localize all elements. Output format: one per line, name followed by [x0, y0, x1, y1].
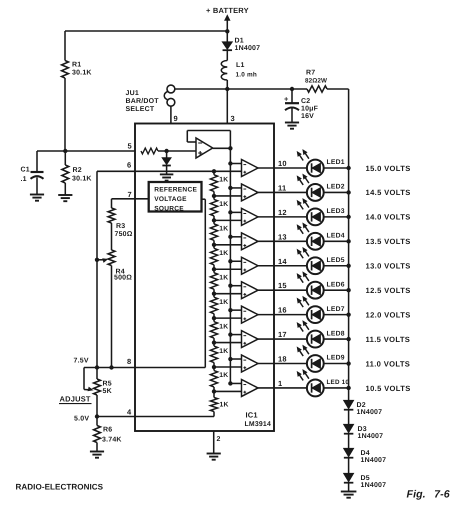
- svg-text:10: 10: [278, 159, 287, 168]
- node ladder tap 8: [212, 340, 216, 344]
- label pin 11: [278, 183, 286, 192]
- svg-text:12.0 VOLTS: 12.0 VOLTS: [366, 310, 411, 319]
- svg-text:17: 17: [278, 330, 287, 339]
- diode D1: [223, 38, 261, 53]
- node rail row 2: [346, 190, 350, 194]
- node rail row 7: [346, 312, 350, 316]
- resistor ladder 1K #3: [210, 220, 228, 244]
- node rail row 10: [346, 386, 350, 390]
- label pin 17: [278, 330, 287, 339]
- svg-text:1N4007: 1N4007: [357, 409, 383, 416]
- svg-text:LED6: LED6: [327, 281, 345, 288]
- svg-text:1N4007: 1N4007: [235, 45, 261, 52]
- svg-text:9: 9: [174, 114, 178, 123]
- op-amp comparator 8: [230, 331, 258, 348]
- wire comparator 4 + input: [214, 244, 242, 246]
- ground internal: [160, 174, 173, 180]
- svg-text:R5: R5: [103, 381, 112, 388]
- wire pin3 rail: [226, 89, 228, 124]
- wire top rail: [175, 88, 349, 90]
- wire to op-amp +: [158, 150, 196, 152]
- node ladder tap 2: [212, 194, 216, 198]
- jumper JU1: [126, 85, 175, 113]
- wire comparator 5 output: [258, 265, 307, 267]
- ground pin2: [207, 454, 221, 460]
- label Fig. 7-6: [407, 489, 450, 501]
- resistor R2: [62, 151, 92, 195]
- op-amp comparator 1: [230, 160, 258, 177]
- svg-text:LED8: LED8: [327, 330, 345, 337]
- svg-text:12: 12: [278, 208, 287, 217]
- label pin 12: [278, 208, 287, 217]
- svg-text:10.5 VOLTS: 10.5 VOLTS: [366, 384, 411, 393]
- capacitor C2: [284, 89, 319, 122]
- svg-text:13: 13: [278, 232, 287, 241]
- diode internal zener: [162, 151, 171, 174]
- svg-text:1N4007: 1N4007: [358, 433, 384, 440]
- node ladder tap 9: [212, 365, 216, 369]
- label ADJUST: [59, 395, 92, 404]
- wire LED rail: [348, 168, 350, 401]
- label pin 3: [231, 114, 235, 123]
- svg-text:1K: 1K: [219, 323, 228, 330]
- svg-text:1K: 1K: [219, 177, 228, 184]
- node comparator 8 feed: [228, 332, 232, 336]
- node buffer output: [228, 146, 232, 150]
- wire comparator 10 + input: [214, 390, 242, 392]
- op-amp comparator 5: [230, 257, 258, 274]
- svg-text:+: +: [284, 95, 289, 104]
- label LM3914: [245, 421, 271, 428]
- label pin 6: [127, 161, 131, 170]
- svg-text:LED7: LED7: [327, 306, 345, 313]
- node rail row 9: [346, 361, 350, 365]
- node 5.0V: [95, 414, 99, 418]
- svg-text:1K: 1K: [219, 201, 228, 208]
- svg-text:R2: R2: [73, 167, 82, 174]
- op-amp comparator 3: [230, 208, 258, 225]
- node comparator 6 feed: [228, 284, 232, 288]
- resistor ladder 1K #1: [210, 171, 228, 196]
- ground R2: [58, 195, 72, 201]
- resistor internal pin5: [141, 148, 158, 154]
- node comparator 2 feed: [228, 186, 232, 190]
- wire comparator 7 output: [258, 314, 307, 316]
- wire comparator 4 output: [258, 240, 307, 242]
- svg-text:D1: D1: [235, 38, 244, 45]
- node comparator 5 feed: [228, 259, 232, 263]
- label 11.0 VOLTS: [366, 359, 411, 368]
- node rail row 1: [346, 166, 350, 170]
- label 10.5 VOLTS: [366, 384, 411, 393]
- op-amp comparator 9: [230, 355, 258, 372]
- svg-text:13.0 VOLTS: 13.0 VOLTS: [366, 262, 411, 271]
- svg-text:R7: R7: [306, 70, 315, 77]
- resistor ladder 1K #7: [210, 318, 228, 342]
- label pin 18: [278, 355, 287, 364]
- label 12.0 VOLTS: [366, 310, 411, 319]
- svg-text:RADIO-ELECTRONICS: RADIO-ELECTRONICS: [16, 483, 104, 492]
- svg-text:ADJUST: ADJUST: [60, 395, 91, 404]
- svg-text:14: 14: [278, 257, 287, 266]
- resistor ladder 1K #8: [210, 343, 228, 367]
- resistor R1: [62, 61, 92, 79]
- label pin 10: [278, 159, 287, 168]
- LED LED5: [297, 248, 348, 275]
- node pin8 R4: [109, 365, 113, 369]
- diode D5: [344, 474, 386, 490]
- wire battery stem: [226, 17, 228, 42]
- wire 7.5V corner: [83, 368, 85, 390]
- wire D5 to ground: [348, 483, 350, 491]
- node pin8 left: [95, 365, 99, 369]
- svg-text:C1: C1: [21, 167, 30, 174]
- svg-text:LED5: LED5: [327, 257, 345, 264]
- wire pin7 corner: [111, 199, 113, 208]
- svg-text:10μF: 10μF: [301, 106, 319, 113]
- node comparator 1 feed: [228, 161, 232, 165]
- node comparator 10 feed: [228, 381, 232, 385]
- label pin 7: [128, 190, 132, 199]
- wire pin8 line: [84, 367, 205, 369]
- op-amp comparator 7: [230, 306, 258, 323]
- label 13.0 VOLTS: [366, 262, 411, 271]
- resistor R3: [108, 208, 133, 238]
- svg-text:LED 10: LED 10: [327, 379, 350, 386]
- svg-text:R6: R6: [103, 427, 112, 434]
- node ladder tap 5: [212, 267, 216, 271]
- svg-text:JU1: JU1: [126, 90, 139, 97]
- wire R1 to node: [64, 78, 66, 151]
- label pin 14: [278, 257, 287, 266]
- LED LED2: [297, 174, 348, 201]
- node battery top junction: [225, 29, 229, 33]
- svg-text:LED4: LED4: [327, 233, 345, 240]
- svg-text:LED9: LED9: [327, 355, 345, 362]
- svg-text:7: 7: [128, 190, 132, 199]
- op-amp comparator 4: [230, 233, 258, 250]
- svg-text:14.0 VOLTS: 14.0 VOLTS: [366, 213, 411, 222]
- svg-text:C2: C2: [301, 98, 310, 105]
- node internal pin5 tee: [164, 149, 168, 153]
- label 15.0 VOLTS: [366, 164, 411, 173]
- svg-text:750Ω: 750Ω: [115, 231, 133, 238]
- svg-text:1K: 1K: [219, 348, 228, 355]
- resistor ladder 1K #6: [210, 294, 228, 318]
- label 13.5 VOLTS: [366, 237, 411, 246]
- wire R5 down: [96, 395, 98, 417]
- label 14.5 VOLTS: [366, 188, 411, 197]
- label 14.0 VOLTS: [366, 213, 411, 222]
- wire comparator feed: [229, 148, 231, 383]
- label 11.5 VOLTS: [366, 335, 411, 344]
- wire R4 down: [111, 266, 113, 368]
- svg-text:1K: 1K: [220, 402, 229, 409]
- resistor ladder 1K #9: [210, 367, 228, 391]
- arrow battery up: [225, 15, 230, 20]
- svg-text:BAR/DOT: BAR/DOT: [126, 97, 160, 105]
- wire pin9 stem: [170, 106, 172, 123]
- node L1 junction: [225, 87, 229, 91]
- LED LED7: [297, 297, 348, 324]
- resistor ladder 1K #2: [210, 196, 228, 220]
- wire comparator 6 + input: [214, 293, 242, 295]
- svg-text:D2: D2: [357, 402, 366, 409]
- wire D1 to L1: [226, 51, 228, 61]
- svg-text:8: 8: [127, 357, 131, 366]
- LED LED9: [297, 345, 348, 371]
- node ladder tap 3: [212, 218, 216, 222]
- label RADIO-ELECTRONICS: [16, 483, 104, 492]
- wire comparator 8 + input: [214, 342, 242, 344]
- label pin 9: [174, 114, 178, 123]
- node R4 wiper: [95, 258, 99, 262]
- wire buffer feedback: [187, 131, 230, 149]
- op-amp comparator 10: [230, 379, 258, 396]
- node ladder tap 10: [212, 389, 216, 393]
- svg-text:1: 1: [278, 379, 282, 388]
- svg-text:REFERENCE: REFERENCE: [154, 187, 197, 194]
- LED LED1: [297, 150, 348, 177]
- op-amp comparator 2: [230, 184, 258, 201]
- inductor L1: [221, 61, 257, 81]
- node R1 junction: [63, 149, 67, 153]
- svg-text:5K: 5K: [103, 388, 112, 395]
- svg-text:+ BATTERY: + BATTERY: [206, 6, 249, 15]
- svg-text:R3: R3: [116, 223, 125, 230]
- wire comparator 10 output: [258, 387, 307, 389]
- svg-text:IC1: IC1: [246, 411, 258, 420]
- wire left vertical: [96, 171, 98, 367]
- resistor ladder 1K #4: [210, 245, 228, 269]
- potentiometer R5: [84, 368, 112, 396]
- op-amp IC1 box: [135, 124, 274, 432]
- svg-text:1K: 1K: [219, 299, 228, 306]
- wire comparator 3 output: [258, 216, 307, 218]
- wire top-left rail: [65, 31, 227, 61]
- resistor R7: [305, 70, 327, 93]
- diode D3: [344, 425, 383, 449]
- wire comparator 6 output: [258, 289, 307, 291]
- wire ref output to pin8: [202, 199, 206, 367]
- LED LED3: [297, 199, 348, 226]
- node rail row 5: [346, 264, 350, 268]
- node ladder tap 6: [212, 292, 216, 296]
- wire comparator 2 output: [258, 191, 307, 193]
- ground R6: [90, 452, 104, 458]
- svg-text:15.0 VOLTS: 15.0 VOLTS: [366, 164, 411, 173]
- svg-text:LED2: LED2: [327, 184, 345, 191]
- node rail row 8: [346, 337, 350, 341]
- LED LED8: [297, 321, 348, 347]
- svg-text:13.5 VOLTS: 13.5 VOLTS: [366, 237, 411, 246]
- label IC1: [246, 411, 258, 420]
- wire R3-R4: [111, 223, 113, 250]
- svg-text:2: 2: [217, 436, 221, 443]
- label pin 8: [127, 357, 131, 366]
- node rail row 6: [346, 288, 350, 292]
- svg-text:LED1: LED1: [327, 159, 345, 166]
- svg-text:4: 4: [127, 408, 132, 417]
- svg-text:5: 5: [128, 142, 132, 151]
- svg-text:Fig. 7-6: Fig. 7-6: [407, 489, 450, 501]
- svg-text:1N4007: 1N4007: [361, 457, 387, 464]
- node ladder top: [212, 169, 216, 173]
- node comparator 7 feed: [228, 308, 232, 312]
- svg-text:L1: L1: [236, 62, 245, 69]
- svg-text:LM3914: LM3914: [245, 421, 271, 428]
- svg-text:SOURCE: SOURCE: [154, 205, 184, 212]
- node comparator 9 feed: [228, 357, 232, 361]
- wire L1 to rail: [226, 80, 228, 89]
- svg-text:1K: 1K: [219, 250, 228, 257]
- svg-text:1K: 1K: [219, 274, 228, 281]
- label 12.5 VOLTS: [366, 286, 411, 295]
- svg-text:6: 6: [127, 161, 131, 170]
- label pin 1: [278, 379, 282, 388]
- svg-text:SELECT: SELECT: [126, 106, 155, 113]
- svg-text:11.0 VOLTS: 11.0 VOLTS: [366, 359, 411, 368]
- diode D4: [344, 449, 386, 474]
- wire comparator 1 output: [258, 167, 307, 169]
- wire pin2 stem: [213, 431, 215, 453]
- wire rail corner down: [348, 89, 350, 168]
- svg-text:LED3: LED3: [327, 208, 345, 215]
- ground C1: [30, 195, 44, 201]
- wire comparator 9 + input: [214, 366, 242, 368]
- svg-text:VOLTAGE: VOLTAGE: [154, 196, 187, 203]
- wire comparator 5 + input: [214, 268, 242, 270]
- wire comparator 3 + input: [214, 219, 242, 221]
- svg-text:14.5 VOLTS: 14.5 VOLTS: [366, 188, 411, 197]
- wire buffer output: [213, 147, 231, 149]
- capacitor C1: [21, 151, 44, 194]
- svg-text:3: 3: [231, 114, 235, 123]
- svg-text:D4: D4: [361, 450, 370, 457]
- wire comparator 2 + input: [214, 195, 242, 197]
- node comparator 4 feed: [228, 235, 232, 239]
- svg-text:D3: D3: [358, 426, 367, 433]
- label 7.5V: [74, 358, 89, 365]
- node ladder tap 4: [212, 243, 216, 247]
- resistor R6: [94, 417, 122, 452]
- svg-text:16V: 16V: [301, 113, 314, 120]
- svg-text:1N4007: 1N4007: [361, 482, 387, 489]
- node rail row 4: [346, 239, 350, 243]
- LED LED6: [297, 272, 348, 299]
- node rail row 3: [346, 215, 350, 219]
- resistor ladder 1K #10: [210, 391, 228, 416]
- label pin 4: [127, 408, 132, 417]
- label pin 2: [217, 436, 221, 443]
- svg-text:11.5 VOLTS: 11.5 VOLTS: [366, 335, 411, 344]
- LED LED 10: [297, 370, 349, 397]
- wire pin7 line: [112, 198, 149, 200]
- svg-text:1K: 1K: [219, 372, 228, 379]
- svg-text:5.0V: 5.0V: [74, 416, 89, 423]
- wire comparator 8 output: [258, 338, 307, 340]
- svg-text:16: 16: [278, 306, 287, 315]
- svg-text:R1: R1: [72, 62, 81, 69]
- svg-text:1.0 mh: 1.0 mh: [236, 72, 257, 79]
- node C2 tap: [290, 87, 294, 91]
- wire pin4 line: [97, 416, 214, 418]
- op-amp buffer U1: [196, 138, 213, 158]
- svg-text:D5: D5: [361, 475, 370, 482]
- label 5.0V: [74, 416, 89, 423]
- label pin 15: [278, 281, 287, 290]
- svg-text:11: 11: [278, 183, 286, 192]
- wire comparator 9 output: [258, 363, 307, 365]
- svg-text:12.5 VOLTS: 12.5 VOLTS: [366, 286, 411, 295]
- wire comparator 7 + input: [214, 317, 242, 319]
- svg-text:15: 15: [278, 281, 287, 290]
- svg-text:30.1K: 30.1K: [72, 70, 92, 77]
- svg-text:3.74K: 3.74K: [102, 437, 122, 444]
- svg-text:500Ω: 500Ω: [114, 275, 132, 282]
- op-amp comparator 6: [230, 282, 258, 299]
- svg-text:18: 18: [278, 355, 287, 364]
- node ladder tap 7: [212, 316, 216, 320]
- label + BATTERY: [206, 6, 249, 15]
- wire pin5 line: [37, 150, 135, 152]
- node comparator 3 feed: [228, 210, 232, 214]
- resistor ladder 1K #5: [210, 269, 228, 293]
- svg-text:1K: 1K: [219, 226, 228, 233]
- svg-text:7.5V: 7.5V: [74, 358, 89, 365]
- svg-text:30.1K: 30.1K: [72, 176, 92, 183]
- ground D5: [341, 492, 357, 498]
- LED LED4: [297, 223, 348, 250]
- svg-text:82Ω2W: 82Ω2W: [305, 78, 327, 85]
- svg-text:.1: .1: [21, 176, 27, 183]
- ground C2: [285, 123, 299, 129]
- label pin 5: [128, 142, 132, 151]
- diode D2: [344, 401, 382, 425]
- label pin 13: [278, 232, 287, 241]
- op-amp reference voltage source box: [149, 182, 202, 212]
- wire pin6 line: [97, 170, 242, 172]
- label pin 16: [278, 306, 287, 315]
- potentiometer R4: [97, 250, 132, 282]
